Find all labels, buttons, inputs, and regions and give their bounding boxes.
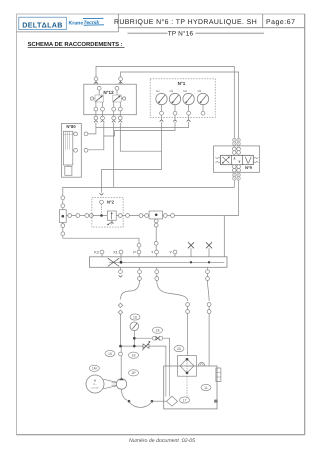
label 11 (201, 384, 211, 390)
svg-text:N°12: N°12 (103, 90, 114, 95)
svg-text:20: 20 (177, 347, 181, 351)
svg-text:N°1: N°1 (178, 81, 186, 86)
wire W2 top (121, 72, 239, 138)
wire W1 top (96, 67, 234, 139)
svg-text:Krane: Krane (69, 21, 84, 27)
N2 relief valve (107, 211, 116, 225)
manifold body (90, 257, 228, 268)
header table borders (17, 14, 305, 32)
DELTALAB logo (19, 17, 67, 29)
label 1M (89, 365, 99, 371)
coupling pair above N12 port A (94, 77, 98, 84)
plug X left (188, 242, 194, 256)
pump (116, 378, 126, 390)
block N2 box (92, 198, 123, 228)
header title text (114, 19, 257, 26)
P riser coupling (137, 243, 141, 250)
wire bus A from N9 (63, 180, 235, 196)
N9 directional valve (215, 155, 258, 164)
wire port3 down to bus A (113, 123, 115, 188)
N80 side port 1 (73, 132, 88, 136)
svg-text:SCHEMA DE RACCORDEMENTS :: SCHEMA DE RACCORDEMENTS : (28, 41, 123, 48)
subtitle rules (128, 32, 265, 34)
label N1 (178, 81, 186, 86)
bottom port B1 (119, 267, 123, 277)
T riser (154, 219, 158, 250)
return line couplings H3 (207, 303, 211, 366)
plug X right (206, 242, 212, 256)
left chain couplings bottom (61, 223, 65, 236)
svg-text:X1: X1 (113, 250, 118, 254)
return pipe inside tank (166, 366, 170, 397)
hose H1 (121, 280, 140, 299)
label N80 (66, 124, 76, 129)
check arrow under M1 (160, 115, 164, 121)
svg-text:M2: M2 (170, 90, 174, 93)
svg-text:11: 11 (204, 386, 208, 390)
manifold ports row (94, 250, 177, 257)
bell housing (103, 379, 116, 389)
svg-text:Page:67: Page:67 (266, 19, 296, 26)
svg-text:DELTΔLAB: DELTΔLAB (22, 20, 63, 29)
wire chain drop to manifold right (223, 216, 225, 257)
port circle on pressure line (119, 352, 123, 356)
gauge branch line (133, 337, 152, 340)
label 19 (153, 327, 163, 333)
tank drain port (214, 400, 217, 403)
tank (164, 366, 217, 409)
svg-text:M3: M3 (183, 90, 187, 93)
label 20 (174, 346, 184, 352)
block N12 box (84, 84, 137, 115)
chain component 2 (149, 211, 162, 219)
gauge PG (130, 322, 139, 346)
throttle valve (142, 341, 150, 351)
page number (266, 19, 296, 26)
coupling pair above N12 port B (119, 77, 123, 84)
chain wire (66, 215, 238, 217)
N80 cylinder (63, 131, 72, 175)
pressure tee line (119, 345, 143, 348)
N2 feed arrow and coupling (100, 193, 104, 216)
return line couplings H2 (186, 303, 190, 356)
label 1P (129, 370, 139, 376)
strainer (167, 396, 178, 406)
svg-text:3 ~: 3 ~ (93, 383, 97, 386)
label N12 (103, 90, 114, 95)
chain couplings 3 (118, 214, 129, 218)
couplings below N12 (94, 115, 122, 123)
check arrow under M3 (187, 115, 191, 121)
valve V1 in N12 (90, 86, 104, 114)
pressure line couplings (118, 303, 122, 314)
svg-text:M1: M1 (156, 90, 160, 93)
bottom port B3 (155, 267, 159, 280)
svg-text:0,75 kW: 0,75 kW (92, 386, 99, 389)
chain couplings 2 (85, 214, 93, 218)
breather (199, 362, 205, 366)
filter (180, 356, 194, 397)
svg-text:N°2: N°2 (107, 200, 115, 205)
wire port1 to N80 top (88, 123, 96, 134)
svg-text:19: 19 (156, 329, 160, 333)
N9 couplings inside bottom (233, 165, 241, 172)
gauge M1 (156, 90, 167, 115)
wire port2 to N80 bottom (88, 123, 104, 150)
filter box (178, 356, 197, 377)
svg-text:N°9: N°9 (245, 165, 252, 170)
label N9 (245, 165, 252, 170)
label 10 (130, 314, 140, 320)
footer text (129, 438, 195, 444)
manifold crossed segment (108, 258, 119, 266)
N9 couplings inside top (233, 147, 241, 154)
svg-text:1M: 1M (92, 367, 97, 371)
svg-text:N°80: N°80 (66, 124, 76, 129)
N9 couplings below (233, 173, 241, 180)
manifold internal line (109, 257, 224, 264)
chain couplings 3b (139, 214, 148, 218)
logo secondary text KranoTechnik (69, 18, 105, 26)
level gauge (216, 368, 221, 382)
wire left chain to P riser (63, 236, 139, 244)
chain couplings 1 (68, 214, 80, 218)
gauge M4 (197, 90, 208, 115)
valve V2 in N12 (112, 86, 126, 114)
svg-text:RUBRIQUE N°6 : TP HYDRAULIQUE: RUBRIQUE N°6 : TP HYDRAULIQUE. SH (114, 19, 257, 26)
svg-text:Numéro de document :02-05: Numéro de document :02-05 (129, 438, 195, 444)
svg-text:17: 17 (183, 398, 187, 402)
wire N9 right port to chain (238, 180, 240, 216)
wire port4 to M1 line (120, 123, 161, 152)
wire M1 down to N2 feed (102, 122, 162, 193)
bottom port B2 (138, 267, 142, 280)
gauge M3 (183, 90, 194, 115)
pressure line vertical (120, 315, 123, 379)
svg-text:TP N°16: TP N°16 (168, 30, 194, 37)
label N2 (107, 200, 115, 205)
svg-text:M4: M4 (198, 90, 202, 93)
gauge M2 (169, 90, 180, 115)
block N9 box (214, 146, 260, 172)
svg-text:K2: K2 (94, 250, 99, 254)
block N80 box (62, 123, 82, 177)
block N1 box (150, 79, 215, 118)
motor (86, 375, 104, 393)
N9 couplings above (233, 138, 241, 145)
check arrow under M2 (173, 115, 177, 121)
label 17 (180, 397, 190, 403)
label 18 (129, 352, 139, 358)
TP number subtitle (168, 30, 194, 37)
bottom port B4 (206, 267, 210, 280)
shutoff valve (152, 336, 162, 340)
svg-text:15: 15 (108, 352, 112, 356)
hose H3 (208, 280, 210, 301)
shutoff to tank link (163, 338, 170, 366)
label 15 (105, 350, 115, 356)
suction hose (122, 389, 167, 407)
wire M2 stair to port2 line (104, 122, 175, 136)
left chain component (shutoff) (60, 210, 67, 223)
svg-text:1P: 1P (131, 371, 136, 375)
hose H2 (157, 280, 188, 301)
throttle to tank link (149, 346, 166, 366)
svg-text:18: 18 (132, 354, 136, 358)
section heading (28, 41, 125, 48)
svg-text:10: 10 (133, 315, 137, 319)
N80 side port 2 (73, 148, 88, 152)
wire M3 to port1 line (96, 122, 189, 128)
left chain couplings top (61, 196, 65, 210)
chain couplings 4 (163, 214, 174, 218)
